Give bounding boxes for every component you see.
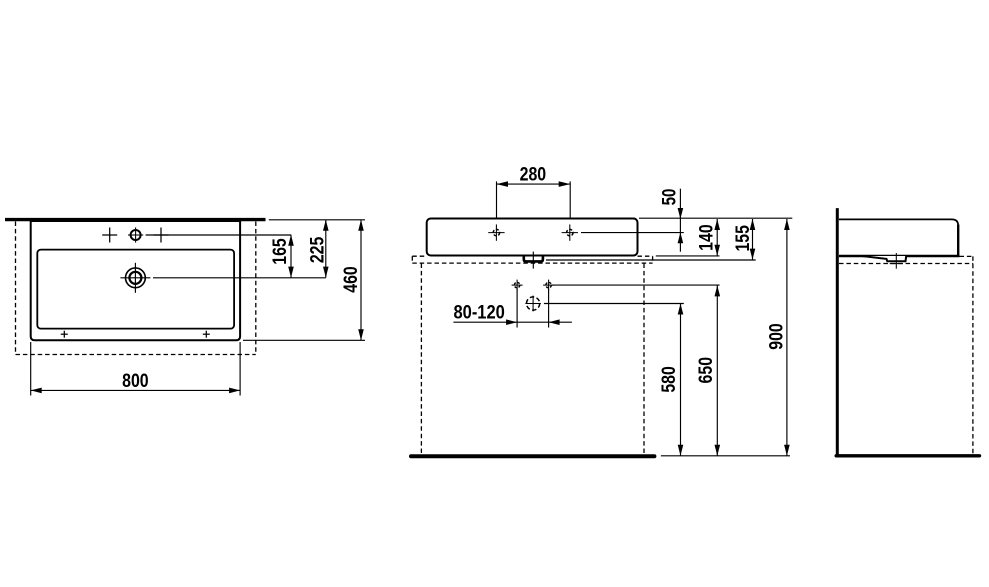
cabinet dashed outline right (front): [643, 264, 645, 455]
inner bowl (plan): [37, 250, 234, 329]
leader plate bottom to 155 dim (front): [546, 259, 756, 261]
dimension 900 (front): [767, 219, 790, 456]
washbasin body (side): [839, 219, 960, 257]
cabinet dashed outline right (side): [972, 256, 974, 454]
dimension 140 (front): [697, 219, 721, 256]
leader from faucet holes to 50 dim (front): [581, 232, 684, 234]
top extension leader (front): [639, 217, 792, 219]
washbasin body (front): [427, 219, 638, 256]
wall mounting hole left (front): [512, 280, 523, 291]
dimension 165 (plan): [270, 235, 294, 278]
leader from faucet hole (plan): [146, 234, 291, 236]
svg-text:140: 140: [697, 224, 718, 251]
dimension 460 (plan): [341, 220, 364, 340]
faucet hole left (front): [488, 224, 504, 240]
bottom fixing mark left (plan): [61, 331, 68, 338]
floor line (side, thick): [836, 454, 979, 457]
cabinet dashed outline left (front): [420, 264, 422, 455]
floor extension line (front): [661, 455, 790, 457]
svg-text:800: 800: [122, 371, 149, 392]
dimension 225 (plan): [307, 220, 328, 278]
svg-text:580: 580: [659, 366, 680, 393]
drain with crosshair (plan): [120, 263, 150, 293]
800 extension line left (plan): [30, 342, 32, 396]
svg-text:155: 155: [733, 225, 754, 252]
faucet hole (plan): [128, 227, 143, 242]
svg-text:900: 900: [767, 323, 788, 350]
mounting plate dashed top edge right (side): [960, 255, 974, 257]
leader from mounting holes (front): [552, 284, 720, 286]
alternate tap hole mark right (plan): [154, 228, 169, 243]
280 extension line left (front): [496, 181, 498, 224]
svg-text:165: 165: [270, 238, 291, 265]
drain outlet dashed circle (front): [525, 296, 541, 312]
washbasin outer rim (plan): [31, 221, 240, 340]
mounting plate dashed bottom edge (side): [839, 263, 973, 265]
floor line (front, thick): [411, 454, 654, 458]
dimension 50 (front): [659, 189, 683, 252]
dimension 580 (front): [659, 304, 684, 456]
countertop cutout dashed outline (plan): [16, 222, 256, 355]
dimension 280 (front): [497, 165, 571, 187]
leader from drain outlet (front): [544, 303, 684, 305]
dimension 80-120 (front): [453, 303, 572, 325]
800 extension line right (plan): [239, 342, 241, 396]
bottom extension line (plan): [243, 339, 365, 341]
svg-text:50: 50: [659, 189, 680, 206]
svg-text:280: 280: [520, 165, 547, 186]
dimension 155 (front): [733, 219, 755, 260]
dimension 650 (front): [696, 285, 720, 455]
mounting hole extension right (front): [548, 289, 550, 328]
dimension 800 (plan): [31, 371, 240, 393]
faucet hole right (front): [562, 224, 578, 240]
alternate tap hole mark left (plan): [102, 228, 117, 243]
drain trap detail (side): [862, 256, 906, 261]
drain centerline cross (side): [890, 253, 903, 269]
svg-text:460: 460: [341, 266, 362, 293]
wall line (plan, thick): [5, 218, 266, 221]
wall line (side, thick): [836, 208, 839, 456]
leader basin bottom to 140 dim (front): [656, 255, 720, 257]
svg-text:80-120: 80-120: [454, 303, 505, 324]
top extension line (plan): [269, 219, 365, 221]
mounting hole extension left (front): [516, 289, 518, 328]
wall mounting hole right (front): [543, 280, 554, 291]
280 extension line right (front): [569, 181, 571, 224]
bottom fixing mark right (plan): [203, 331, 210, 338]
svg-text:650: 650: [696, 357, 717, 384]
mounting plate dashed outline (front): [412, 256, 652, 263]
svg-text:225: 225: [307, 236, 328, 263]
leader from drain (plan): [153, 277, 326, 279]
drain tailpiece (front): [524, 252, 543, 269]
